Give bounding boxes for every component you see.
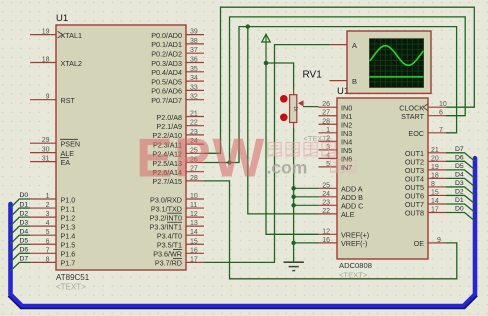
svg-text:16: 16 [322, 237, 330, 244]
svg-text:1: 1 [326, 127, 330, 134]
svg-text:D4: D4 [20, 228, 29, 235]
svg-text:19: 19 [42, 29, 50, 36]
bus entry D0 left [11, 192, 31, 207]
svg-text:16: 16 [190, 247, 198, 254]
U1 pin 12 P3.2/INT0 [150, 211, 204, 222]
RV1 top terminal [293, 89, 295, 95]
svg-text:P3.7/RD: P3.7/RD [155, 259, 182, 268]
svg-text:ALE: ALE [61, 149, 75, 158]
svg-text:VREF(-): VREF(-) [341, 239, 367, 248]
U2 pin 9 OE [414, 237, 446, 248]
U1 pin 38 P0.1/AD1 [151, 38, 204, 49]
svg-text:XTAL1: XTAL1 [61, 31, 82, 40]
wire EOC rail to ADC ALE [248, 27, 319, 214]
U1 pin 37 P0.2/AD2 [151, 47, 204, 58]
U2 pin 10 CLOCK [399, 101, 447, 112]
U1 pin 27 P2.6/A14 [152, 166, 204, 177]
junction ADD C [291, 203, 295, 207]
svg-text:P0.5/AD5: P0.5/AD5 [151, 77, 182, 86]
bus entry D4 right [446, 172, 475, 187]
U1 pin 7 P1.6 [30, 247, 75, 258]
svg-text:26: 26 [322, 101, 330, 108]
oscilloscope body [347, 31, 431, 93]
svg-text:2: 2 [46, 202, 50, 209]
U2 pin 17 OUT8 [405, 207, 446, 218]
svg-text:<TEXT>: <TEXT> [56, 283, 86, 292]
U1 pin 29 PSEN [30, 137, 80, 148]
bus entry D2 left [11, 210, 31, 225]
svg-text:7: 7 [439, 127, 443, 134]
svg-text:33: 33 [190, 84, 198, 91]
U2 pin 28 IN2 [319, 118, 353, 129]
svg-text:D5: D5 [455, 163, 464, 170]
U1 pin 5 P1.4 [30, 229, 75, 240]
svg-text:7: 7 [46, 247, 50, 254]
svg-text:19: 19 [431, 164, 439, 171]
U2 pin 16 VREF(-) [319, 237, 368, 248]
U1 pin 15 P3.5/T1 [157, 238, 204, 249]
svg-text:.com: .com [267, 158, 308, 178]
svg-text:U1: U1 [56, 13, 68, 24]
svg-text:START: START [401, 112, 425, 121]
svg-text:AT89C51: AT89C51 [56, 273, 90, 282]
wire VCC to VREF(+) [266, 63, 319, 234]
potentiometer RV1 body [290, 95, 298, 123]
svg-text:9: 9 [437, 237, 441, 244]
U2 pin 27 IN1 [319, 110, 353, 121]
bus entry D6 left [11, 247, 31, 262]
U1 pin 34 P0.5/AD5 [151, 75, 204, 86]
svg-text:17: 17 [190, 256, 198, 263]
svg-text:EPW: EPW [136, 127, 266, 189]
U2 pin 24 ADD B [319, 191, 364, 202]
svg-text:P1.0: P1.0 [61, 195, 76, 204]
svg-text:D6: D6 [455, 155, 464, 162]
svg-text:D2: D2 [20, 210, 29, 217]
RV1 wiper arrow [298, 100, 319, 106]
oscilloscope screen [370, 39, 424, 88]
U1 pin 1 P1.0 [30, 193, 75, 204]
U2 pin 14 OUT7 [405, 198, 446, 209]
U1 pin 2 P1.1 [30, 202, 75, 213]
svg-text:34: 34 [190, 75, 198, 82]
svg-text:<TEXT>: <TEXT> [304, 134, 332, 143]
bus entry D5 right [446, 163, 475, 178]
svg-text:15: 15 [431, 189, 439, 196]
svg-text:12: 12 [190, 211, 198, 218]
svg-text:37: 37 [190, 47, 198, 54]
U1 pin 26 P2.5/A13 [152, 157, 204, 168]
U1 pin 9 RST [30, 94, 75, 105]
svg-text:1k: 1k [292, 106, 298, 112]
svg-text:27: 27 [322, 110, 330, 117]
svg-text:RV1: RV1 [303, 70, 323, 81]
svg-text:P0.0/AD0: P0.0/AD0 [151, 31, 182, 40]
U2 pin 15 OUT6 [405, 189, 446, 200]
svg-text:ADC0808: ADC0808 [339, 261, 372, 270]
svg-text:D0: D0 [455, 206, 464, 213]
wire VCC to RV1 top [266, 63, 294, 89]
svg-text:P3.3/INT1: P3.3/INT1 [150, 222, 182, 231]
scope trace channel B (flat) [370, 76, 424, 78]
junction ADD A [291, 186, 295, 190]
U1 pin 18 XTAL2 [30, 57, 82, 68]
U1 pin 16 P3.6/WR [153, 247, 204, 258]
svg-text:11: 11 [190, 202, 197, 209]
svg-text:21: 21 [431, 147, 439, 154]
svg-text:P3.0/RXD: P3.0/RXD [150, 195, 182, 204]
svg-text:18: 18 [42, 57, 50, 64]
wire ADC START to node on P2.5 net [230, 17, 466, 163]
svg-text:4: 4 [46, 220, 50, 227]
scope input A [329, 41, 357, 50]
bus entry D5 left [11, 237, 31, 252]
svg-text:XTAL2: XTAL2 [61, 59, 82, 68]
svg-text:3: 3 [46, 211, 50, 218]
U2 pin 6 START [401, 110, 446, 121]
svg-text:P1.3: P1.3 [61, 222, 76, 231]
svg-text:P1.7: P1.7 [61, 259, 76, 268]
svg-text:EOC: EOC [408, 129, 424, 138]
svg-text:P3.1/TXD: P3.1/TXD [151, 204, 182, 213]
U2 pin 8 OUT5 [405, 181, 446, 192]
svg-text:25: 25 [322, 182, 330, 189]
svg-text:D7: D7 [20, 256, 29, 263]
U1 pin 22 P2.1/A9 [156, 120, 204, 131]
svg-text:6: 6 [439, 110, 443, 117]
svg-text:P0.1/AD1: P0.1/AD1 [151, 40, 182, 49]
U1 pin 4 P1.3 [30, 220, 75, 231]
U1 pin 36 P0.3/AD3 [151, 57, 204, 68]
svg-text:P3.6/WR: P3.6/WR [153, 250, 182, 259]
U1 pin 13 P3.3/INT1 [150, 220, 204, 231]
svg-text:6: 6 [46, 238, 50, 245]
junction node P2.5/START [227, 160, 231, 164]
svg-text:D2: D2 [455, 189, 464, 196]
svg-text:15: 15 [190, 238, 198, 245]
U1 pin 11 P3.1/TXD [151, 202, 204, 213]
U2 pin 2 IN4 [319, 135, 353, 146]
svg-text:OUT8: OUT8 [405, 209, 424, 218]
U1 pin 8 P1.7 [30, 256, 75, 267]
svg-text:D5: D5 [20, 237, 29, 244]
svg-text:D4: D4 [455, 172, 464, 179]
svg-text:OE: OE [414, 239, 425, 248]
U1 pin 28 P2.7/A15 [152, 175, 204, 186]
RV1 probe marker dot upper [280, 95, 288, 103]
svg-text:P3.5/T1: P3.5/T1 [157, 241, 182, 250]
svg-text:9: 9 [46, 94, 50, 101]
power terminal VCC arrow [262, 34, 270, 63]
svg-text:P0.6/AD6: P0.6/AD6 [151, 87, 182, 96]
svg-text:D3: D3 [455, 180, 464, 187]
svg-text:22: 22 [322, 208, 330, 215]
U1 pin 21 P2.0/A8 [156, 111, 204, 122]
svg-text:20: 20 [431, 155, 439, 162]
U1 pin 19 XTAL1 [30, 29, 82, 40]
svg-text:32: 32 [190, 94, 198, 101]
bus entry D6 right [446, 155, 475, 170]
svg-text:D1: D1 [455, 197, 464, 204]
U2 pin 19 OUT3 [405, 164, 446, 175]
svg-text:EA: EA [61, 158, 71, 167]
svg-text:14: 14 [190, 229, 198, 236]
U1 pin 3 P1.2 [30, 211, 75, 222]
U1 pin 30 ALE [30, 147, 74, 158]
IC U1 AT89C51 body [56, 25, 186, 270]
svg-text:18: 18 [431, 172, 439, 179]
U2 pin 26 IN0 [319, 101, 353, 112]
U1 pin 23 P2.2/A10 [152, 129, 204, 140]
svg-text:PSEN: PSEN [61, 140, 81, 149]
svg-text:B: B [352, 77, 357, 86]
junction VCC branch [264, 61, 269, 66]
junction ADD B [291, 195, 295, 199]
svg-text:P2.0/A8: P2.0/A8 [156, 113, 182, 122]
U2 pin 7 EOC [408, 127, 446, 138]
svg-text:23: 23 [322, 199, 330, 206]
U2 pin 1 IN3 [319, 127, 353, 138]
svg-text:14: 14 [431, 198, 439, 205]
U2 pin 5 IN7 [319, 161, 353, 172]
svg-text:17: 17 [431, 207, 439, 214]
svg-text:13: 13 [190, 220, 198, 227]
data bus shadow edge [8, 296, 477, 309]
svg-text:8: 8 [431, 181, 435, 188]
U1 pin 33 P0.6/AD6 [151, 84, 204, 95]
U2 pin 22 ALE [319, 208, 355, 219]
svg-text:1: 1 [46, 193, 50, 200]
svg-text:38: 38 [190, 38, 198, 45]
svg-text:8: 8 [46, 256, 50, 263]
svg-text:P3.4/T0: P3.4/T0 [157, 232, 182, 241]
IC U2 ADC0808 body [337, 98, 428, 259]
bus entry D0 right [446, 206, 475, 221]
svg-text:P0.2/AD2: P0.2/AD2 [151, 50, 182, 59]
junction VREF(-) [291, 241, 295, 245]
svg-text:P1.4: P1.4 [61, 232, 76, 241]
svg-text:10: 10 [190, 193, 198, 200]
scope input B [329, 77, 357, 86]
svg-text:D6: D6 [20, 247, 29, 254]
U2 pin 25 ADD A [319, 182, 363, 193]
U1 pin 6 P1.5 [30, 238, 75, 249]
svg-text:30: 30 [42, 147, 50, 154]
svg-text:P1.5: P1.5 [61, 241, 76, 250]
U2 pin 21 OUT1 [405, 147, 446, 158]
svg-text:21: 21 [190, 111, 198, 118]
svg-text:P0.3/AD3: P0.3/AD3 [151, 59, 182, 68]
junction node on EOC rail [246, 24, 250, 28]
U2 pin 3 IN5 [319, 144, 353, 155]
U2 pin 12 VREF(+) [319, 228, 370, 239]
U1 pin 24 P2.3/A11 [153, 138, 204, 149]
data bus D0-D7 (blue) [11, 158, 476, 306]
bus entry D3 left [11, 219, 31, 234]
wire P3.7/RD to scope channel A [204, 45, 329, 263]
svg-text:ALE: ALE [341, 210, 355, 219]
U1 pin 10 P3.0/RXD [150, 193, 204, 204]
U1 pin 14 P3.4/T0 [157, 229, 204, 240]
svg-text:39: 39 [190, 29, 198, 36]
RV1 bottom terminal [293, 123, 295, 129]
bus entry D7 right [446, 146, 475, 161]
ground net wire RV1 bottom to ground [293, 128, 295, 262]
svg-text:P1.1: P1.1 [61, 204, 76, 213]
U1 pin 25 P2.4/A12 [152, 147, 204, 158]
scope trace channel A (sine) [370, 46, 424, 66]
bus entry D1 right [446, 197, 475, 212]
svg-text:12: 12 [322, 228, 330, 235]
svg-text:D0: D0 [20, 192, 29, 199]
wire P2.7/A15 to ADC OE [204, 181, 457, 279]
bus entry D4 left [11, 228, 31, 243]
svg-text:P1.2: P1.2 [61, 213, 76, 222]
U1 pin 35 P0.4/AD4 [151, 66, 204, 77]
svg-text:P1.6: P1.6 [61, 250, 76, 259]
wire ground to VREF(-) [294, 242, 319, 244]
bus entry D7 left [11, 256, 31, 271]
svg-text:P3.2/INT0: P3.2/INT0 [150, 213, 182, 222]
svg-text:D3: D3 [20, 219, 29, 226]
svg-text:29: 29 [42, 137, 50, 144]
svg-text:36: 36 [190, 57, 198, 64]
svg-text:24: 24 [322, 191, 330, 198]
bus entry D1 left [11, 201, 31, 216]
svg-text:P0.7/AD7: P0.7/AD7 [151, 96, 182, 105]
U2 pin 20 OUT2 [405, 155, 446, 166]
U2 pin 4 IN6 [319, 152, 353, 163]
wire ground to ADD C [294, 204, 319, 206]
svg-text:5: 5 [326, 161, 330, 168]
wire P2.4/A12 to ADC CLOCK [204, 7, 474, 153]
U2 pin 18 OUT4 [405, 172, 446, 183]
svg-text:35: 35 [190, 66, 198, 73]
U2 pin 23 ADD C [319, 199, 364, 210]
U1 pin 31 EA [30, 156, 70, 167]
svg-text:28: 28 [322, 118, 330, 125]
U1 pin 39 P0.0/AD0 [151, 29, 204, 40]
bus entry D2 right [446, 189, 475, 204]
svg-text:D1: D1 [20, 201, 29, 208]
svg-text:A: A [352, 41, 357, 50]
bus entry D3 right [446, 180, 475, 195]
svg-text:RST: RST [61, 96, 76, 105]
svg-text:10: 10 [439, 101, 447, 108]
wire P2.5/A13 to ADC EOC [204, 27, 457, 163]
U1 pin 32 P0.7/AD7 [151, 94, 204, 105]
ground symbol [284, 262, 304, 270]
wire ground to ADD B [294, 196, 319, 198]
svg-text:D7: D7 [455, 146, 464, 153]
RV1 probe marker dot lower [280, 114, 288, 122]
U1 pin 17 P3.7/RD [155, 256, 204, 267]
wire ground to ADD A [294, 187, 319, 189]
svg-text:P0.4/AD4: P0.4/AD4 [151, 68, 182, 77]
svg-text:31: 31 [42, 156, 50, 163]
svg-text:5: 5 [46, 229, 50, 236]
